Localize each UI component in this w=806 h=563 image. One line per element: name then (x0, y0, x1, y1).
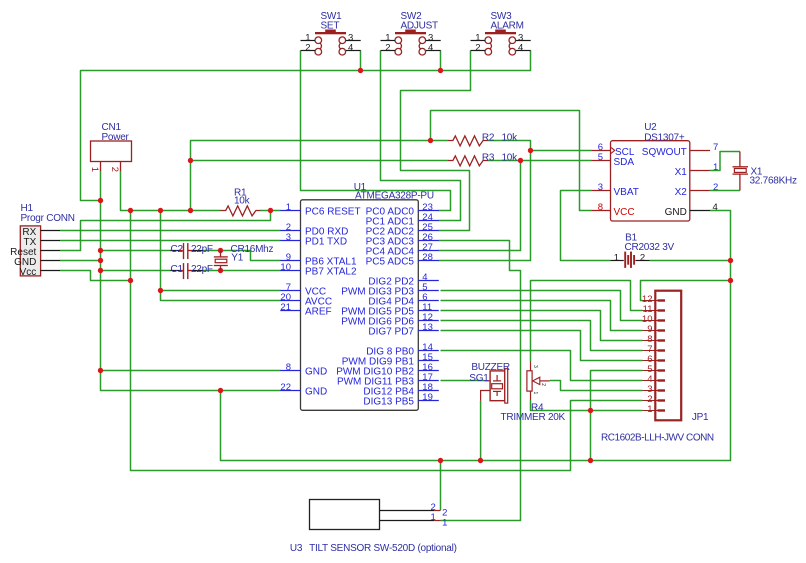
svg-text:VCC: VCC (614, 207, 635, 218)
connector JP1 RC1602B-LLH-JWV (601, 291, 714, 444)
node GND C2 row (98, 248, 103, 253)
svg-text:22pF: 22pF (191, 264, 213, 275)
svg-text:ADJUST: ADJUST (401, 21, 439, 32)
svg-text:4: 4 (348, 43, 353, 54)
wire U1 VCC pin7 (161, 290, 281, 292)
node Vcc row x161 (158, 208, 163, 213)
wire U2 X1 pin to crystal (710, 152, 740, 171)
wire U3 pin2 to GND rail (440, 461, 442, 511)
svg-text:SQWOUT: SQWOUT (642, 147, 687, 158)
svg-text:8: 8 (286, 362, 291, 373)
svg-text:RC1602B-LLH-JWV CONN: RC1602B-LLH-JWV CONN (601, 433, 714, 444)
wire H1 RX to U1 PD0 (60, 230, 281, 232)
svg-text:TRIMMER 20K: TRIMMER 20K (501, 412, 566, 423)
wire VBAT to B1 pin1 (561, 191, 611, 261)
svg-text:GND: GND (305, 387, 327, 398)
wire U1 GND pin8 row (101, 370, 281, 372)
svg-text:32.768KHz: 32.768KHz (750, 176, 797, 187)
wire Vcc rail to JP1 pin2 (131, 211, 643, 471)
node GND pin22 (218, 388, 223, 393)
svg-text:DS1307+: DS1307+ (644, 132, 685, 143)
svg-text:CR2032 3V: CR2032 3V (625, 242, 675, 253)
svg-text:4: 4 (518, 43, 523, 54)
svg-text:Vcc: Vcc (20, 267, 37, 278)
svg-text:1: 1 (532, 392, 538, 395)
wire SCL to U2 (531, 150, 592, 152)
U2 left pins (592, 142, 639, 218)
svg-text:GND: GND (305, 367, 327, 378)
svg-text:4: 4 (713, 202, 718, 213)
svg-text:ATMEGA328P-PU: ATMEGA328P-PU (355, 191, 434, 202)
svg-text:1: 1 (614, 253, 619, 264)
svg-text:BUZZER: BUZZER (471, 362, 510, 373)
node GND C1 row (98, 268, 103, 273)
svg-text:2: 2 (540, 383, 546, 386)
node R2 left Vcc loop (428, 138, 433, 143)
sensor U3 TILT SENSOR SW-520D (290, 500, 457, 554)
wire C2 right to XTAL1 (203, 251, 281, 261)
svg-text:DIG13 PB5: DIG13 PB5 (363, 397, 414, 408)
wire trimmer wiper to JP1 pin3 (550, 381, 643, 391)
node JP1 pin5 GND rail (588, 458, 593, 463)
svg-text:C2: C2 (171, 244, 184, 255)
svg-text:1: 1 (286, 202, 291, 213)
svg-text:VBAT: VBAT (614, 187, 639, 198)
svg-text:DIG7 PD7: DIG7 PD7 (368, 327, 414, 338)
wire JP1 pin12 to GND (641, 281, 731, 301)
wire R2 left lead to Vcc vertical (191, 141, 449, 211)
wire CN1 pin1 GND vertical to U1 GND pin22 (101, 171, 281, 391)
wire RESET net to H1 (60, 211, 271, 251)
wire SW3 pin2 to U1 PC2 (401, 51, 471, 231)
svg-text:22pF: 22pF (191, 244, 213, 255)
svg-text:GND: GND (665, 207, 687, 218)
node Vcc row x191 (188, 208, 193, 213)
node R3 Vcc (188, 158, 193, 163)
svg-text:3: 3 (598, 182, 603, 193)
wire U1 PD4 to JP1 pin9 (441, 301, 643, 331)
svg-text:SET: SET (321, 21, 340, 32)
wire U1 PD6 to JP1 pin7 (441, 321, 643, 351)
switch SW2 ADJUST (381, 11, 441, 55)
svg-text:4: 4 (428, 43, 433, 54)
wire Vcc to U1 VCC AVCC (161, 211, 281, 301)
switch SW1 SET (301, 11, 361, 55)
wire SDA to U2 (521, 160, 592, 162)
wire trimmer top to JP1 pin11 (531, 281, 643, 362)
svg-text:8: 8 (598, 202, 603, 213)
wire U1 PB0 to JP1 pin4 (441, 351, 643, 381)
svg-text:2: 2 (640, 253, 645, 264)
node JP1 pin1 net (588, 408, 593, 413)
capacitor C1 22pF (170, 263, 213, 279)
svg-text:PC5 ADC5: PC5 ADC5 (366, 257, 415, 268)
svg-text:7: 7 (713, 142, 718, 153)
svg-text:1: 1 (647, 404, 652, 415)
svg-text:Y1: Y1 (231, 252, 243, 263)
svg-text:3: 3 (532, 365, 538, 368)
svg-text:PD1 TXD: PD1 TXD (305, 237, 347, 248)
node Y1 bottom (218, 268, 223, 273)
wire top rail from SW3 pin4 to node A (81, 51, 531, 201)
svg-text:PB7 XTAL2: PB7 XTAL2 (305, 267, 357, 278)
wire R3 right to node (488, 160, 521, 162)
wire JP1 pin5 to GND (591, 371, 643, 461)
node VCC pin7 (158, 288, 163, 293)
wire GND to C2 left (101, 250, 171, 252)
node RESET R1 (268, 208, 273, 213)
capacitor C2 22pF (170, 243, 213, 259)
svg-text:1: 1 (431, 512, 436, 523)
wire H1 TX to U1 PD1 (60, 240, 281, 242)
svg-text:R2: R2 (482, 132, 495, 143)
wire B1 pin2 to GND (650, 260, 731, 262)
wire U2 X2 pin to crystal (710, 190, 740, 192)
svg-text:2: 2 (385, 43, 390, 54)
wire trimmer bottom to JP1 pin1 (531, 400, 643, 411)
IC U2 DS1307+ body (611, 122, 690, 221)
resistor R2 10k (448, 132, 518, 146)
svg-text:1: 1 (442, 517, 447, 528)
resistor R1 10k (221, 187, 261, 216)
svg-text:13: 13 (422, 322, 433, 333)
buzzer SG1 (469, 362, 510, 403)
wire H1 GND (60, 260, 101, 262)
svg-text:10: 10 (280, 262, 291, 273)
svg-text:Power: Power (102, 132, 130, 143)
node GND pin8 (98, 368, 103, 373)
svg-text:JP1: JP1 (692, 412, 709, 423)
node SDA (518, 158, 523, 163)
node U3 pin2 GND rail (438, 458, 443, 463)
wire C1 right to XTAL2 (203, 270, 281, 272)
wire GND rail to U2 GND (221, 211, 731, 461)
wire U1 PD3 to JP1 pin10 (441, 291, 643, 321)
svg-text:28: 28 (422, 252, 433, 263)
svg-text:2: 2 (305, 43, 310, 54)
wire U3 pin1 to U1 PC3 (439, 241, 521, 521)
node Vcc jog x131 (128, 278, 133, 283)
crystal Y1 CR16Mhz (214, 244, 274, 271)
wire SW1 pin4 drop (360, 51, 362, 71)
node SW2.4 on top rail (438, 68, 443, 73)
svg-text:X1: X1 (675, 167, 688, 178)
svg-text:10k: 10k (234, 195, 251, 206)
resistor R3 10k (448, 152, 518, 166)
svg-text:ALARM: ALARM (491, 21, 524, 32)
crystal X1 32.768KHz (733, 152, 797, 191)
node JP1 pin12 GND (728, 278, 733, 283)
svg-text:10k: 10k (502, 132, 519, 143)
svg-text:5: 5 (598, 152, 603, 163)
wire U1 PB3 to buzzer (441, 380, 485, 382)
wire H1 Vcc jog (60, 271, 131, 281)
wire U1 PD7 to JP1 pin6 (441, 331, 643, 361)
svg-text:1: 1 (89, 167, 100, 172)
wire SDA down to U1 PC4 (439, 161, 521, 251)
wire R3 left lead (191, 160, 449, 162)
svg-text:TILT SENSOR SW-520D (optional): TILT SENSOR SW-520D (optional) (309, 543, 457, 554)
node B1 pin2 GND (728, 258, 733, 263)
node SCL (528, 148, 533, 153)
svg-text:19: 19 (422, 392, 433, 403)
svg-text:2: 2 (475, 43, 480, 54)
wire CN1 pin2 to R1 row (121, 171, 221, 211)
node H1 GND (98, 258, 103, 263)
svg-text:AREF: AREF (305, 307, 332, 318)
svg-text:1: 1 (713, 162, 718, 173)
svg-text:10k: 10k (502, 152, 519, 163)
node Y1 top (218, 248, 223, 253)
U1 right pins (336, 202, 439, 408)
svg-text:2: 2 (109, 167, 120, 172)
battery B1 CR2032 3V (610, 232, 674, 268)
svg-text:SG1: SG1 (469, 373, 489, 384)
svg-text:R3: R3 (482, 152, 495, 163)
connector H1 Progr CONN (10, 203, 75, 278)
node SW1.4 on top rail (358, 68, 363, 73)
svg-text:2: 2 (713, 182, 718, 193)
node A GND top (98, 198, 103, 203)
wire GND to C1 left (101, 270, 171, 272)
svg-text:21: 21 (280, 302, 291, 313)
wire R2 right to U1 PC5/SCL (439, 141, 531, 261)
U2 right pins (642, 142, 718, 218)
U1 left pins (280, 202, 360, 398)
IC U1 ATMEGA328P-PU body (301, 182, 434, 410)
svg-text:3: 3 (286, 232, 291, 243)
wire Vcc loop to U2 VCC pin8 (431, 111, 592, 211)
wire buzzer pin2 to GND rail (480, 401, 482, 461)
wire U1 PD5 to JP1 pin8 (441, 311, 643, 341)
svg-text:C1: C1 (171, 264, 184, 275)
svg-text:U3: U3 (290, 543, 303, 554)
node buzzer GND rail (478, 458, 483, 463)
svg-text:SDA: SDA (614, 157, 635, 168)
wire R1 right lead to U1 RESET (260, 210, 281, 212)
node Vcc row x131 (128, 208, 133, 213)
wire SW1 pin2 to U1 PC0 (301, 51, 451, 211)
trimmer R4 TRIMMER 20K (501, 362, 566, 423)
wire SW2 pin2 to U1 PC1 (381, 51, 461, 221)
switch SW3 ALARM (471, 11, 531, 55)
connector CN1 Power (89, 122, 131, 172)
svg-text:22: 22 (280, 382, 291, 393)
wire SW2 pin4 drop (440, 51, 442, 71)
svg-text:X2: X2 (675, 187, 688, 198)
svg-text:Progr CONN: Progr CONN (21, 213, 75, 224)
svg-text:PC6 RESET: PC6 RESET (305, 207, 361, 218)
